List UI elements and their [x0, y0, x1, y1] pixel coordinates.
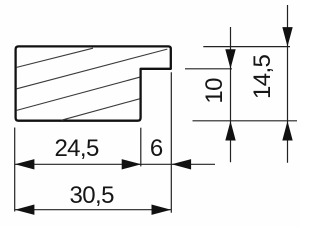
extension line top edge	[203, 46, 290, 48]
hatch line D	[62, 99, 140, 120]
extension line lip bottom	[185, 68, 232, 70]
arrow left 24,5	[15, 159, 35, 169]
hatch line B	[17, 49, 168, 89]
arrow up 10	[225, 121, 235, 141]
arrow down 14,5	[282, 27, 292, 46]
dimension line 30,5	[15, 209, 172, 211]
arrow right 30,5	[152, 205, 172, 215]
dimension line 10 vertical	[230, 27, 232, 162]
extension line right	[170, 72, 172, 212]
extension line step	[140, 128, 142, 167]
hatch line C	[17, 77, 140, 110]
extension line bottom edge	[193, 120, 298, 122]
hatch line A	[17, 48, 93, 67]
dimension line 24,5 / 6	[15, 163, 215, 165]
arrow up 14,5	[282, 121, 292, 141]
extension line left	[14, 128, 16, 212]
arrow down 10	[225, 49, 235, 69]
svg-text:10: 10	[201, 78, 228, 104]
svg-text:6: 6	[150, 135, 163, 162]
dimension line 14,5 vertical	[287, 5, 289, 163]
svg-text:24,5: 24,5	[54, 135, 99, 162]
arrow left 30,5	[15, 205, 35, 215]
svg-text:14,5: 14,5	[249, 54, 276, 99]
arrow 6 right outside	[172, 159, 192, 169]
svg-text:30,5: 30,5	[70, 182, 115, 209]
arrow right 24,5	[122, 159, 142, 169]
profile outline	[16, 46, 171, 120]
